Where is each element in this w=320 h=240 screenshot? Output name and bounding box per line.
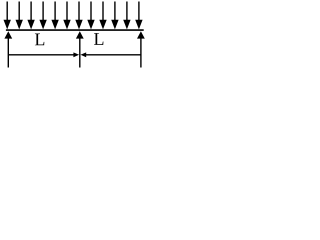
distributed load arrow 7: [75, 2, 82, 30]
distributed load arrow 12: [135, 2, 142, 30]
distributed load arrow 11: [123, 2, 130, 30]
distributed load arrow 4: [39, 2, 46, 30]
support reaction arrow left: [4, 31, 12, 67]
dimension line left span with right-pointing arrowhead at midspan support: [8, 52, 79, 57]
dimension line right span with left-pointing arrowhead at midspan support: [81, 52, 141, 57]
distributed load arrow 1: [4, 2, 11, 30]
background: [0, 0, 146, 70]
distributed load arrow 2: [16, 2, 23, 30]
distributed load arrow 3: [27, 2, 34, 30]
support reaction arrow right: [137, 31, 145, 67]
span length label L (right): [94, 33, 103, 45]
span length label L (left): [35, 34, 44, 46]
distributed load arrow 6: [63, 2, 70, 30]
distributed load arrow 5: [51, 2, 58, 30]
distributed load arrow 10: [111, 2, 118, 30]
distributed load arrow 9: [99, 2, 106, 30]
beam: [6, 29, 144, 31]
distributed load arrow 8: [87, 2, 94, 30]
support reaction arrow middle: [76, 31, 84, 67]
